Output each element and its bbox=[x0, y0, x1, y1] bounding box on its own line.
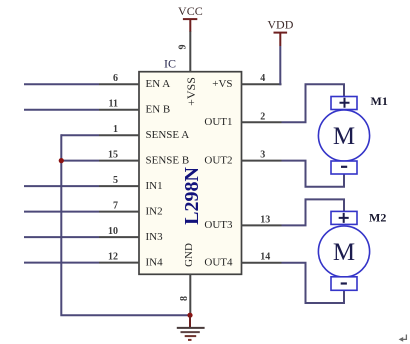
svg-text:GND: GND bbox=[183, 243, 195, 267]
svg-text:IN2: IN2 bbox=[146, 205, 163, 217]
svg-text:6: 6 bbox=[113, 73, 118, 84]
svg-text:OUT3: OUT3 bbox=[204, 219, 233, 231]
wire IN1 (pin 5) bbox=[24, 185, 99, 187]
wire EN B (pin 11) bbox=[24, 109, 99, 111]
junction at SENSE B tap bbox=[59, 158, 64, 163]
svg-text:10: 10 bbox=[108, 226, 118, 237]
power port VCC stub bbox=[189, 19, 191, 31]
motor M1 plus sign bbox=[340, 98, 350, 108]
wire VDD to pin 4 bbox=[279, 46, 281, 85]
op-amp U1 body (IC L298N) bbox=[139, 72, 242, 275]
ground bar 1 bbox=[177, 327, 205, 329]
pin 13 OUT3 stub bbox=[241, 224, 282, 226]
svg-text:IC: IC bbox=[164, 57, 176, 71]
pin 3 OUT2 stub bbox=[241, 160, 282, 162]
svg-text:5: 5 bbox=[113, 175, 118, 186]
motor M2 plus sign bbox=[339, 213, 349, 223]
svg-text:+VS: +VS bbox=[212, 78, 232, 90]
svg-text:M: M bbox=[333, 239, 355, 266]
svg-text:8: 8 bbox=[179, 296, 190, 301]
wire SENSE B (pin 15) bbox=[61, 160, 99, 162]
pin 8 GND stub (bottom) bbox=[189, 274, 191, 315]
pin 15 SENSE B stub bbox=[99, 160, 140, 162]
motor M2 minus terminal box bbox=[331, 277, 357, 291]
pin 6 EN A stub bbox=[99, 83, 140, 85]
power port VCC bar bbox=[183, 18, 197, 20]
svg-text:1: 1 bbox=[113, 124, 118, 135]
svg-text:IN1: IN1 bbox=[146, 180, 163, 192]
svg-text:M: M bbox=[333, 123, 355, 150]
motor M1 minus sign bbox=[341, 166, 347, 168]
pin 11 EN B stub bbox=[99, 109, 140, 111]
pin 9 +VSS stub (top) bbox=[189, 31, 191, 72]
svg-text:OUT4: OUT4 bbox=[204, 257, 233, 269]
pin 10 IN3 stub bbox=[99, 236, 140, 238]
svg-text:SENSE B: SENSE B bbox=[146, 154, 190, 166]
wire OUT3 to M2 plus bbox=[282, 199, 345, 225]
formatting return-arrow mark bbox=[402, 335, 406, 340]
svg-text:14: 14 bbox=[260, 252, 270, 263]
wire IN4 (pin 12) bbox=[24, 262, 99, 264]
svg-text:15: 15 bbox=[108, 150, 118, 161]
svg-text:L298N: L298N bbox=[181, 167, 203, 225]
pin 7 IN2 stub bbox=[99, 211, 140, 213]
ground bar 2 bbox=[181, 331, 200, 333]
svg-text:EN A: EN A bbox=[146, 78, 171, 90]
motor M1 minus terminal box bbox=[331, 161, 357, 174]
pin 2 OUT1 stub bbox=[241, 121, 282, 123]
power port VDD stub bbox=[279, 33, 281, 46]
wire OUT1 to M1 plus bbox=[282, 84, 345, 122]
svg-text:9: 9 bbox=[178, 45, 189, 50]
svg-text:11: 11 bbox=[109, 99, 118, 110]
junction at ground node bbox=[187, 313, 192, 318]
wire IN3 (pin 10) bbox=[24, 236, 99, 238]
wire sense ground run (left vertical + bottom horizontal) bbox=[61, 134, 190, 315]
wire EN A (pin 6) bbox=[24, 83, 99, 85]
pin 1 SENSE A stub bbox=[99, 134, 140, 136]
svg-text:2: 2 bbox=[260, 111, 265, 122]
svg-text:OUT2: OUT2 bbox=[204, 154, 232, 166]
pin 12 IN4 stub bbox=[99, 262, 140, 264]
wire OUT4 to M2 minus bbox=[282, 263, 345, 303]
ground bar 4 bbox=[188, 339, 192, 341]
svg-text:EN B: EN B bbox=[146, 104, 171, 116]
svg-text:VCC: VCC bbox=[178, 4, 203, 18]
ground bar 3 bbox=[185, 335, 197, 337]
svg-text:M1: M1 bbox=[371, 94, 388, 108]
ground stub bbox=[189, 315, 191, 327]
svg-text:SENSE A: SENSE A bbox=[146, 129, 190, 141]
motor M2 body circle bbox=[318, 226, 369, 277]
svg-text:OUT1: OUT1 bbox=[204, 116, 232, 128]
svg-text:12: 12 bbox=[108, 252, 118, 263]
svg-text:4: 4 bbox=[260, 73, 265, 84]
svg-text:M2: M2 bbox=[369, 211, 386, 225]
pin 4 +VS stub bbox=[241, 83, 282, 85]
motor M1 plus terminal box bbox=[331, 97, 357, 110]
power port VDD bar bbox=[274, 32, 288, 34]
svg-text:7: 7 bbox=[113, 201, 118, 212]
svg-text:IN3: IN3 bbox=[146, 231, 164, 243]
svg-text:VDD: VDD bbox=[267, 18, 293, 32]
wire SENSE A (pin 1) bbox=[61, 134, 99, 136]
wire IN2 (pin 7) bbox=[24, 211, 99, 213]
svg-text:13: 13 bbox=[260, 214, 270, 225]
svg-text:IN4: IN4 bbox=[146, 256, 164, 268]
svg-text:+VSS: +VSS bbox=[184, 77, 198, 106]
svg-text:3: 3 bbox=[260, 150, 265, 161]
motor M2 minus sign bbox=[341, 282, 347, 284]
motor M2 plus terminal box bbox=[331, 211, 357, 224]
motor M1 body circle bbox=[318, 110, 369, 161]
wire OUT2 to M1 minus bbox=[282, 161, 345, 187]
pin 5 IN1 stub bbox=[99, 185, 140, 187]
pin 14 OUT4 stub bbox=[241, 262, 282, 264]
